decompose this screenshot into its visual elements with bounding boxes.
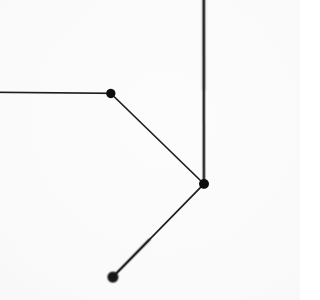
wire: vertical from top edge to node B: [203, 0, 206, 184]
wire: vertical soft halo near top (bokeh): [202, 0, 205, 90]
ball C (blurred): [107, 272, 118, 283]
wire: diagonal node A to node B: [111, 93, 204, 183]
wire: blurred tail near ball C: [115, 239, 151, 275]
wire: diagonal node B to ball C: [113, 184, 204, 277]
wire: horizontal from left edge to node A: [0, 92, 111, 93]
node B: [199, 179, 209, 189]
node A: [106, 89, 115, 98]
